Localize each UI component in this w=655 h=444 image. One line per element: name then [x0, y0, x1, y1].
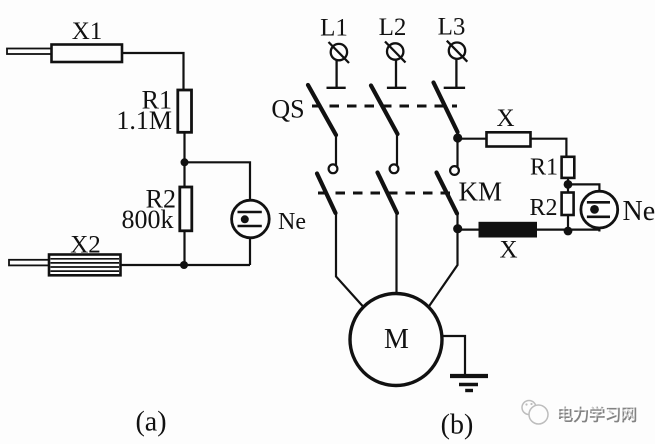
- QS linkage dashed line: [312, 105, 457, 108]
- wire plug X to R1: [531, 139, 567, 157]
- node KM pole3 / socket X junction: [453, 224, 462, 233]
- wire L3 terminal to QS: [444, 59, 465, 88]
- node D junction dot: [564, 227, 573, 236]
- wire Ne bottom lead: [598, 228, 600, 232]
- switch QS pole 3 blade: [434, 83, 458, 133]
- wire L2 terminal to QS: [387, 60, 406, 88]
- node A junction dot: [181, 158, 189, 166]
- wire node A to R2: [183, 162, 185, 187]
- plug X: [487, 132, 531, 146]
- KM linkage dashed line: [318, 192, 455, 195]
- node B junction dot: [180, 261, 188, 269]
- resistor R2: [180, 187, 192, 231]
- resistor R1 (b): [562, 157, 575, 178]
- wire R2 to node B: [183, 231, 185, 265]
- watermark icon: [522, 401, 548, 425]
- svg-text:电力学习网: 电力学习网: [556, 404, 636, 423]
- contactor KM pole 1 blade: [317, 174, 336, 214]
- wire socket X bottom rail: [458, 229, 600, 231]
- probe X2: [9, 255, 121, 276]
- svg-text:1.1M: 1.1M: [116, 106, 172, 135]
- wire X1 to R1: [122, 53, 184, 90]
- contactor KM pole 3 blade: [437, 173, 458, 214]
- svg-text:(a): (a): [135, 407, 166, 438]
- wire QS pole1 to KM contact: [335, 134, 337, 165]
- socket X (black): [479, 222, 538, 238]
- wire node C to Ne top: [568, 184, 599, 191]
- ground symbol: [450, 376, 488, 391]
- node C junction dot: [564, 180, 573, 189]
- wire R1 to node A: [183, 132, 185, 162]
- wire node A to Ne top: [185, 162, 251, 200]
- svg-text:(b): (b): [441, 410, 474, 441]
- watermark text: [556, 404, 638, 425]
- probe X1: [7, 45, 122, 63]
- neon lamp Ne (b): [581, 191, 618, 228]
- svg-text:X1: X1: [72, 18, 103, 45]
- switch QS pole 1 blade: [308, 85, 336, 135]
- svg-text:800k: 800k: [122, 205, 174, 234]
- contactor KM contact hook 3: [450, 166, 459, 175]
- node QS pole3 / plug X junction: [453, 133, 462, 142]
- svg-text:R2: R2: [529, 195, 557, 221]
- svg-text:L2: L2: [379, 14, 407, 41]
- wire motor to ground: [442, 336, 465, 374]
- wire KM pole2 to motor: [395, 213, 397, 294]
- wire R2 to node D: [567, 215, 569, 232]
- svg-text:Ne: Ne: [623, 196, 655, 227]
- svg-text:X: X: [496, 105, 514, 132]
- switch QS pole 2 blade: [371, 86, 398, 135]
- wire QS pole3 to KM contact: [456, 132, 458, 167]
- svg-text:L1: L1: [320, 15, 348, 42]
- terminal L2: [385, 42, 406, 63]
- terminal L3: [447, 41, 468, 62]
- neon lamp Ne (a): [232, 200, 270, 238]
- wire node to plug X: [458, 138, 487, 140]
- wire R1 to node C: [567, 178, 569, 185]
- svg-text:L3: L3: [438, 14, 466, 41]
- wire L1 terminal to QS: [327, 60, 346, 88]
- wire KM pole1 to motor: [336, 213, 364, 307]
- resistor R1: [178, 90, 192, 132]
- svg-text:R1: R1: [530, 155, 558, 181]
- contactor KM contact hook 1: [329, 164, 338, 173]
- contactor KM pole 2 blade: [378, 173, 398, 214]
- motor M: [350, 294, 442, 386]
- wire KM pole3 to motor: [429, 213, 458, 307]
- svg-text:Ne: Ne: [278, 209, 306, 235]
- terminal L1: [329, 42, 350, 63]
- svg-text:M: M: [384, 324, 409, 355]
- svg-text:X: X: [499, 237, 517, 264]
- svg-text:QS: QS: [271, 95, 304, 124]
- wire QS pole2 to KM contact: [396, 134, 398, 166]
- wire node C to R2: [567, 184, 569, 192]
- contactor KM contact hook 2: [390, 164, 399, 173]
- wire node B to Ne bottom: [184, 264, 250, 266]
- resistor R2 (b): [562, 193, 574, 216]
- svg-text:KM: KM: [459, 177, 503, 207]
- wire X2 to node B: [121, 264, 185, 266]
